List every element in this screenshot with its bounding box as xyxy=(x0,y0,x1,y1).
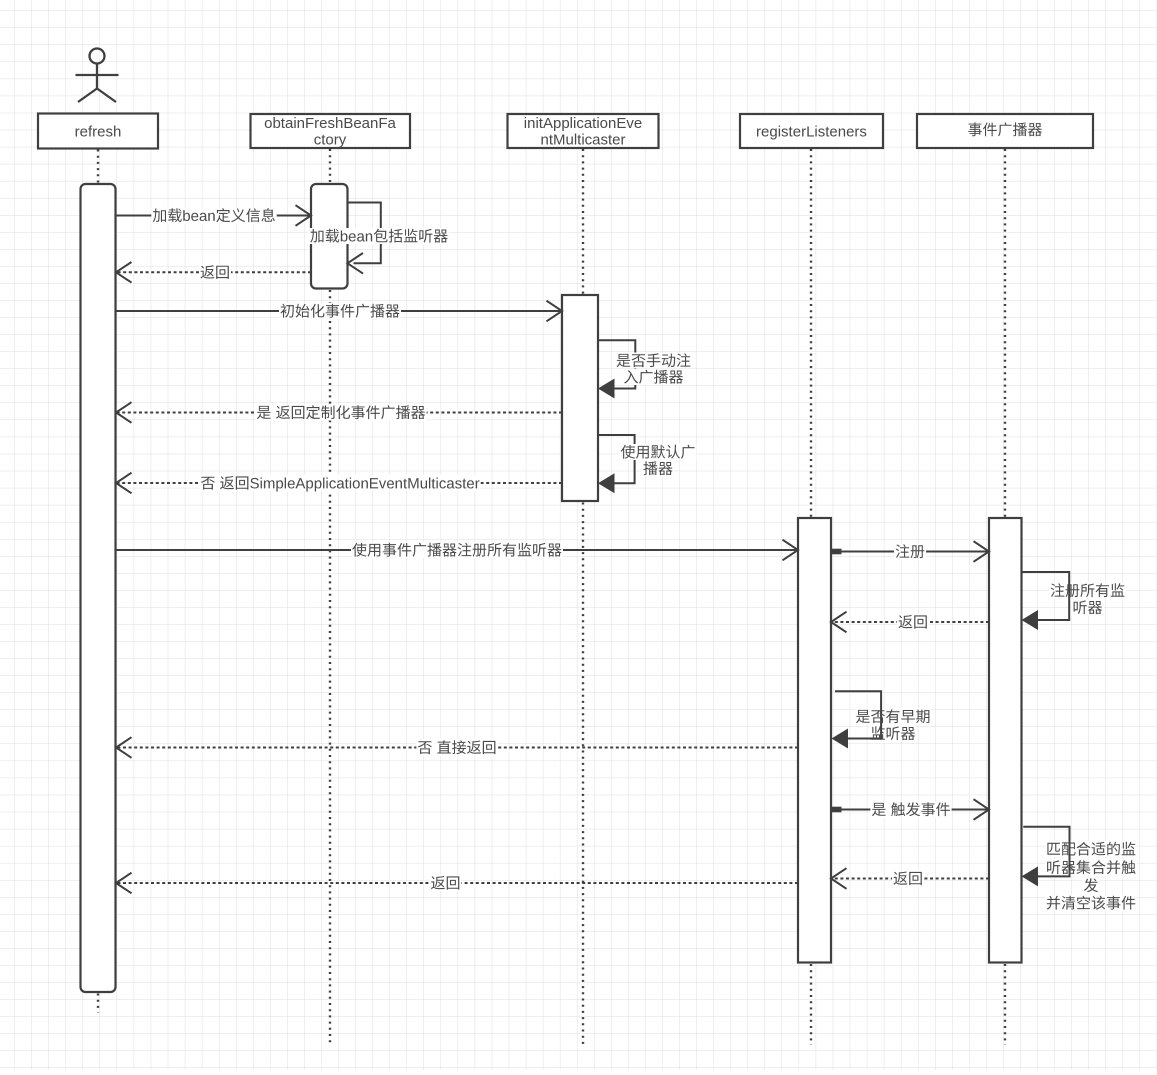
message: 返回 (事件广播器→registerListeners) upper xyxy=(831,612,989,633)
message: 是 触发事件 xyxy=(831,799,989,820)
message: 使用事件广播器注册所有监听器 xyxy=(116,540,799,561)
self message: 加载bean包括监听器 xyxy=(309,203,449,274)
lifeline: obtainFreshBeanFactory (dashed) xyxy=(329,149,331,1045)
svg-text:obtainFreshBeanFa: obtainFreshBeanFa xyxy=(264,115,396,132)
svg-text:initApplicationEve: initApplicationEve xyxy=(524,115,642,132)
lifeline header: refresh xyxy=(38,114,158,149)
activation bar: 事件广播器 xyxy=(989,518,1022,963)
lifeline header: obtainFreshBeanFactory xyxy=(251,114,411,149)
lifeline header: 事件广播器 xyxy=(917,114,1093,148)
self message: 是否手动注入广播器 xyxy=(598,340,692,398)
message: 是 返回定制化事件广播器 xyxy=(116,402,562,423)
message: 否 直接返回 xyxy=(116,737,798,758)
message: 加载bean定义信息 xyxy=(116,205,312,226)
lifeline: refresh (dashed) xyxy=(97,150,99,1013)
lifeline: initApplicationEventMulticaster (dashed) xyxy=(582,149,584,1045)
actor (stick figure above refresh lifeline) xyxy=(76,49,119,103)
svg-text:refresh: refresh xyxy=(75,123,122,140)
svg-text:registerListeners: registerListeners xyxy=(756,123,867,140)
send stub at 注册 message start xyxy=(831,549,842,555)
message: 返回 (registerListeners→refresh) xyxy=(116,873,798,894)
activation bar: registerListeners xyxy=(798,518,831,963)
self message: 匹配合适的监听器集合并触发 并清空该事件 xyxy=(1022,827,1138,911)
self message: 是否有早期监听器 xyxy=(832,691,932,748)
activation bar: refresh xyxy=(81,184,116,992)
message: 返回 (obtain→refresh) xyxy=(116,262,311,283)
svg-text:ctory: ctory xyxy=(314,132,347,149)
lifeline header: initApplicationEventMulticaster xyxy=(508,114,659,149)
message: 返回 (事件广播器→registerListeners) lower xyxy=(831,868,989,889)
message: 否 返回SimpleApplicationEventMulticaster xyxy=(116,473,562,494)
message: 注册 xyxy=(831,541,989,562)
self message: 注册所有监听器 xyxy=(1022,572,1127,630)
send stub at 是 触发事件 message start xyxy=(831,807,842,813)
lifeline: registerListeners (dashed) xyxy=(810,149,812,1045)
self message: 使用默认广播器 xyxy=(598,435,697,493)
lifeline: 事件广播器 (dashed) xyxy=(1004,149,1006,1045)
message: 初始化事件广播器 xyxy=(116,301,563,322)
activation bar: obtainFreshBeanFactory xyxy=(311,184,348,289)
activation bar: initApplicationEventMulticaster xyxy=(562,295,598,501)
lifeline header: registerListeners xyxy=(740,114,883,148)
svg-text:ntMulticaster: ntMulticaster xyxy=(540,132,625,149)
